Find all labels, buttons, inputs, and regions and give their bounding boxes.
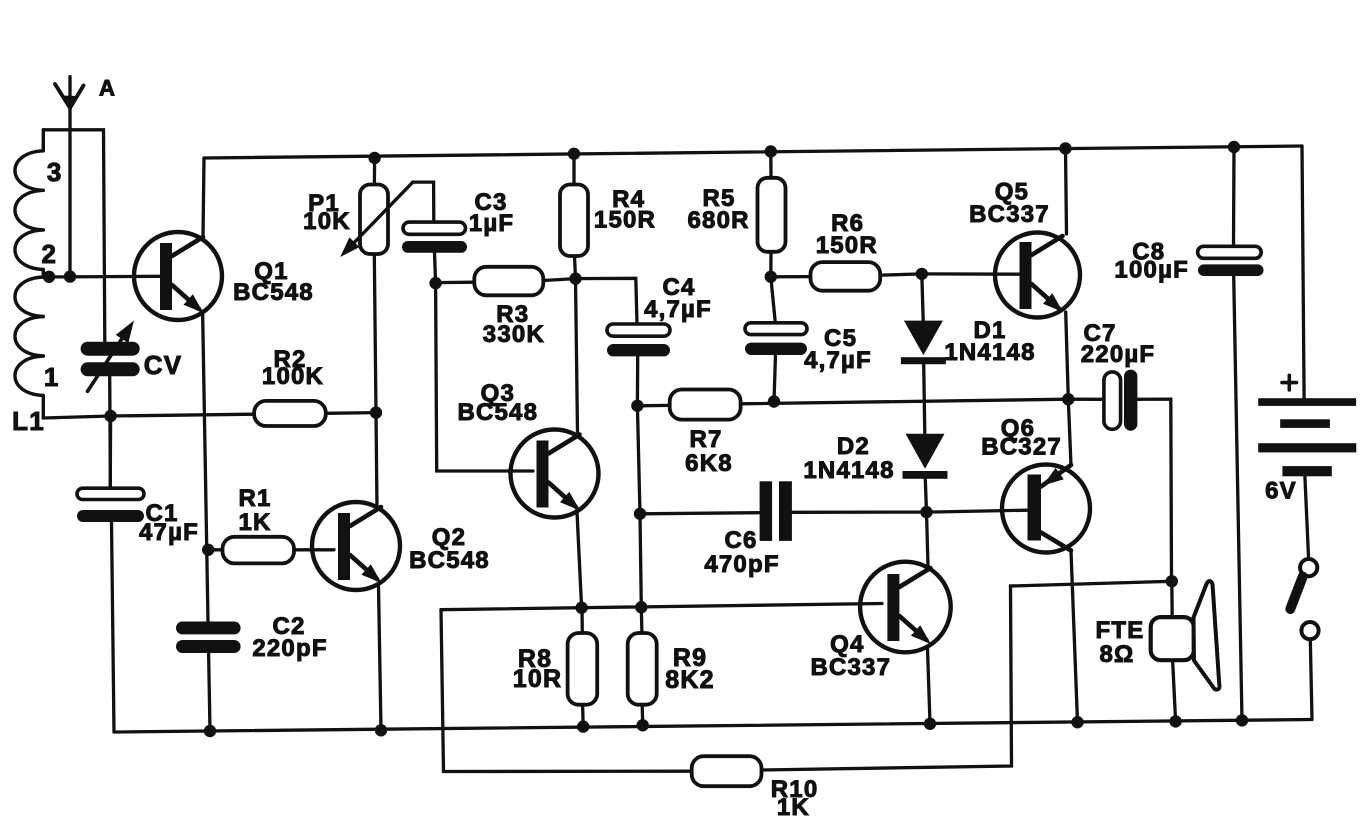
svg-text:47µF: 47µF [139,519,199,546]
svg-text:C6: C6 [724,527,757,554]
svg-text:8Ω: 8Ω [1100,641,1135,668]
svg-text:10R: 10R [513,665,562,693]
svg-text:1K: 1K [777,794,810,821]
svg-text:220µF: 220µF [1081,341,1156,368]
svg-text:470pF: 470pF [704,551,779,578]
svg-text:6K8: 6K8 [685,450,733,477]
svg-text:100K: 100K [262,363,324,390]
svg-text:BC337: BC337 [810,654,891,681]
svg-text:150R: 150R [594,207,656,234]
svg-text:FTE: FTE [1096,617,1145,644]
svg-text:1N4148: 1N4148 [803,457,894,484]
svg-text:4,7µF: 4,7µF [644,296,712,323]
svg-text:BC337: BC337 [969,201,1050,228]
svg-text:10K: 10K [303,208,351,235]
svg-text:1µF: 1µF [469,210,514,237]
svg-text:8K2: 8K2 [665,666,714,694]
svg-text:A: A [99,76,116,101]
svg-text:R1: R1 [238,485,271,512]
svg-text:4,7µF: 4,7µF [804,347,872,374]
svg-text:BC327: BC327 [981,434,1062,461]
svg-text:1K: 1K [238,509,271,536]
svg-text:CV: CV [144,350,183,380]
svg-text:BC548: BC548 [233,279,314,306]
svg-text:3: 3 [47,157,63,187]
svg-text:100µF: 100µF [1114,257,1189,284]
svg-text:150R: 150R [816,232,878,259]
svg-text:R7: R7 [689,426,722,453]
svg-text:220pF: 220pF [252,635,327,662]
svg-text:D2: D2 [837,433,870,460]
svg-text:2: 2 [41,239,57,269]
svg-text:BC548: BC548 [457,399,538,426]
svg-text:BC548: BC548 [409,547,490,574]
svg-text:1N4148: 1N4148 [944,339,1035,366]
svg-text:6V: 6V [1265,478,1297,505]
svg-text:680R: 680R [688,207,750,234]
svg-text:330K: 330K [483,321,545,348]
svg-text:1: 1 [44,362,60,392]
svg-text:L1: L1 [12,406,45,436]
